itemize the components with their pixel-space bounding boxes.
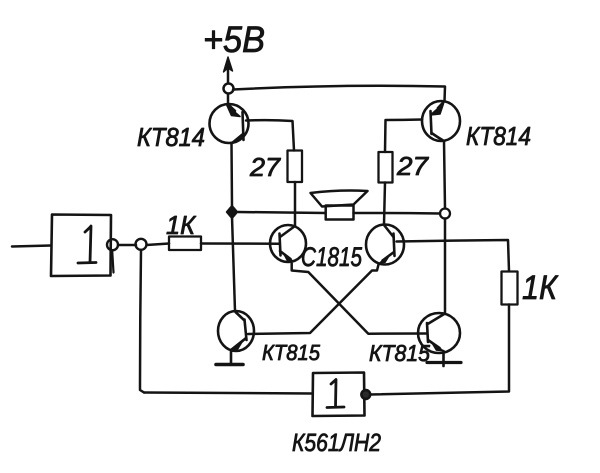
wire mid rail right (speaker to node) (354, 212, 441, 215)
svg-text:+5В: +5В (203, 19, 265, 60)
resistor R27 right (379, 152, 393, 183)
node right rail (440, 209, 450, 219)
wire R1 to VT3 base (201, 242, 279, 245)
svg-text:1К: 1К (166, 210, 197, 240)
wire supply node to VT1 emitter (227, 94, 230, 105)
node supply terminal (224, 84, 234, 94)
input stub (12, 246, 51, 247)
wire VT1 base to R27 left (246, 120, 294, 150)
resistor R2 1K right (502, 272, 518, 305)
transistor VT1 KT814 (left PNP) (210, 104, 249, 144)
svg-text:КТ814: КТ814 (137, 122, 205, 152)
transistor VT4 C1815 (right NPN) (366, 225, 404, 265)
inverter U2 box (313, 373, 365, 417)
svg-text:КТ815: КТ815 (369, 340, 430, 366)
inverter U2 output bubble (361, 390, 370, 399)
inverter U1 output bubble (107, 239, 118, 272)
wire VT2 base to R27 right (385, 120, 422, 153)
speaker LS1 (311, 191, 368, 220)
svg-text:27: 27 (396, 151, 430, 181)
node feedback tap (136, 239, 147, 250)
svg-text:27: 27 (249, 152, 282, 182)
wire node to R1 (147, 244, 170, 246)
ground VT6 (427, 361, 461, 364)
wire mid rail left (dot to speaker) (238, 212, 326, 213)
wire U1 bubble to node (118, 244, 136, 247)
wire U2 output to R2 bottom (371, 305, 510, 395)
svg-text:КТ815: КТ815 (262, 340, 321, 365)
wire VT4 base to R2 (397, 240, 510, 271)
transistor VT6 KT815 (right NPN bottom) (418, 313, 460, 366)
transistor VT2 KT814 (right PNP) (422, 101, 460, 141)
label +5V (203, 19, 265, 60)
wire VT2 collector down (444, 141, 445, 313)
svg-text:С1815: С1815 (301, 242, 363, 272)
ground VT5 (216, 363, 243, 367)
wire R27 left to VT3 collector (294, 182, 297, 226)
transistor VT5 KT815 (left NPN bottom) (218, 311, 254, 365)
svg-text:К561ЛН2: К561ЛН2 (292, 429, 381, 457)
power arrow +5V (224, 57, 233, 83)
wire VT1 collector down (232, 144, 236, 312)
wire cross VT4 emitter to VT5 base (248, 265, 379, 335)
inverter U1 box (51, 215, 111, 277)
wire feedback left vertical (140, 251, 144, 393)
resistor R27 left (288, 151, 303, 183)
wire cross VT3 emitter to VT6 base (292, 264, 427, 334)
wire top rail to VT2 (233, 86, 445, 101)
junction dot left rail (227, 206, 238, 219)
transistor VT3 C1815 (left NPN) (270, 225, 306, 262)
svg-text:КТ814: КТ814 (466, 121, 531, 151)
wire feedback bottom to U2 input (144, 393, 312, 394)
resistor R1 1K (169, 237, 201, 251)
svg-text:1К: 1К (522, 269, 559, 307)
wire R27 right down to VT4 collector (384, 183, 385, 225)
